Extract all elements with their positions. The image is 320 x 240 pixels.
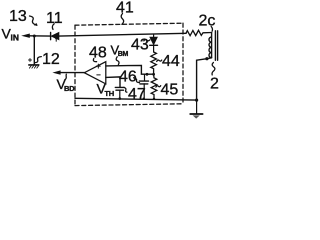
svg-text:13: 13 (9, 8, 27, 25)
capacitor C46 (139, 74, 148, 99)
svg-text:45: 45 (161, 82, 179, 99)
wire zener branch (33, 36, 35, 65)
svg-text:TH: TH (105, 89, 114, 98)
capacitor C47 (115, 87, 124, 98)
transformer T2 primary winding (209, 33, 212, 58)
svg-text:47: 47 (128, 86, 146, 103)
junction dot (146, 73, 149, 76)
wire inverting input (106, 77, 120, 87)
svg-text:41: 41 (116, 0, 134, 17)
svg-text:46: 46 (119, 69, 137, 86)
wire bottom rail (75, 98, 197, 100)
svg-text:44: 44 (162, 53, 180, 70)
junction dot (205, 57, 208, 60)
resistor R45 (151, 74, 157, 99)
op-amp U48 (84, 62, 106, 84)
junction dot (153, 98, 155, 100)
resistor R2c (186, 30, 212, 35)
transformer T2 core (215, 31, 217, 61)
wire top rail to R2c (59, 33, 186, 36)
svg-text:BM: BM (118, 51, 129, 58)
junction dot (143, 98, 145, 100)
wire primary bottom (197, 58, 212, 100)
svg-text:12: 12 (42, 51, 60, 68)
svg-text:IN: IN (11, 33, 20, 43)
junction dot under D11 (55, 37, 58, 40)
node VBD output arrow (52, 70, 60, 74)
svg-text:2: 2 (210, 76, 219, 93)
diode D11 (51, 32, 59, 39)
wire op-amp output (60, 72, 84, 74)
ground (hatched) (29, 65, 39, 68)
dashed box 41 (75, 23, 183, 105)
wire VIN to diode (29, 35, 51, 37)
plus mark (29, 59, 32, 62)
ground (right) (190, 100, 202, 119)
junction dot (119, 97, 122, 100)
svg-text:BD: BD (64, 84, 75, 93)
svg-text:43: 43 (131, 37, 149, 54)
junction dot (152, 73, 155, 76)
node VIN input arrow (21, 34, 30, 38)
diode D43 (150, 35, 158, 52)
wire stub (55, 38, 57, 42)
node A junction dot (33, 35, 36, 38)
junction dot (195, 99, 198, 102)
resistor R44 (151, 52, 157, 74)
wire non-inverting input to divider (106, 65, 154, 74)
svg-text:2c: 2c (199, 13, 216, 30)
svg-text:48: 48 (89, 45, 107, 62)
